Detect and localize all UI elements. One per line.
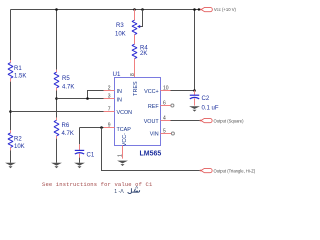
pin 6 REF stub <box>161 100 174 107</box>
svg-text:VCC+: VCC+ <box>144 89 159 95</box>
wire to ground left <box>10 150 12 162</box>
svg-text:R5: R5 <box>62 76 70 82</box>
svg-text:C2: C2 <box>202 96 210 102</box>
svg-text:1.5K: 1.5K <box>14 74 26 80</box>
ground (under C1) <box>74 163 85 168</box>
svg-text:4.7K: 4.7K <box>62 84 74 90</box>
svg-text:TRES: TRES <box>133 81 139 96</box>
svg-text:VIN: VIN <box>150 131 159 137</box>
svg-text:VCON: VCON <box>117 110 133 116</box>
svg-text:10: 10 <box>163 85 169 91</box>
capacitor C1 <box>75 128 95 163</box>
node top rail / R5 branch <box>55 8 58 11</box>
svg-text:2: 2 <box>108 85 111 91</box>
pin 9 wire TCAP <box>80 122 115 129</box>
svg-text:3: 3 <box>108 93 111 99</box>
resistor R5 <box>54 70 74 91</box>
svg-text:0.1 uF: 0.1 uF <box>202 105 219 111</box>
wire left vertical <box>10 10 12 61</box>
ground (left, under R2) <box>5 163 16 168</box>
svg-text:10K: 10K <box>14 144 25 150</box>
resistor R4 <box>132 44 148 58</box>
wire top rail <box>11 9 200 11</box>
pin 7 wire VCON <box>11 106 115 112</box>
svg-text:9: 9 <box>108 122 111 128</box>
svg-text:Output (Square): Output (Square) <box>214 119 245 124</box>
svg-text:2K: 2K <box>140 51 147 57</box>
svg-text:R1: R1 <box>14 66 22 72</box>
svg-text:8: 8 <box>130 73 136 76</box>
wire R5 to R6 <box>56 91 58 118</box>
svg-text:1: 1 <box>117 154 123 157</box>
wire R3 to R4 <box>134 35 136 45</box>
node Output (Triangle, Hi-Z) connector <box>200 168 256 173</box>
svg-text:VCC-: VCC- <box>122 133 128 146</box>
svg-text:4.7K: 4.7K <box>62 131 74 137</box>
resistor R6 <box>54 118 74 139</box>
ground (under C2) <box>189 106 200 111</box>
svg-text:4: 4 <box>163 115 166 121</box>
ground (pin 1) <box>117 161 128 166</box>
svg-text:R3: R3 <box>116 23 124 29</box>
svg-text:5: 5 <box>163 128 166 134</box>
svg-text:IN: IN <box>117 89 122 95</box>
svg-text:R6: R6 <box>62 123 70 129</box>
wire second vertical (R5/R6 branch) <box>56 10 58 70</box>
svg-text:IN: IN <box>117 97 122 103</box>
svg-text:1 -Λ: 1 -Λ <box>114 189 124 195</box>
resistor R3 (potentiometer) <box>115 8 137 37</box>
svg-text:7: 7 <box>108 106 111 112</box>
pin 1 VCC- stub <box>117 146 123 159</box>
svg-text:R2: R2 <box>14 136 22 142</box>
wire to triangle output <box>102 128 200 171</box>
svg-text:VOUT: VOUT <box>144 119 160 125</box>
svg-text:Output (Triangle, Hi-Z): Output (Triangle, Hi-Z) <box>214 169 256 174</box>
resistor R1 <box>8 60 26 82</box>
wire left vertical middle <box>10 82 12 131</box>
svg-text:C1: C1 <box>87 152 95 158</box>
capacitor C2 <box>190 91 219 112</box>
svg-text:U1: U1 <box>113 71 121 78</box>
ground (under R6) <box>51 163 62 168</box>
wire Vcc vertical <box>194 10 196 91</box>
figure caption (Arabic) <box>114 187 139 195</box>
pin 4 VOUT wire <box>161 115 200 121</box>
svg-text:LM565: LM565 <box>140 151 162 158</box>
svg-text:Vcc (+10 V): Vcc (+10 V) <box>214 7 237 12</box>
node Output (Square) connector <box>200 118 244 123</box>
svg-text:REF: REF <box>148 104 159 110</box>
node Vcc connector <box>198 7 237 12</box>
pin 2 wire <box>88 85 115 98</box>
wire R3 wiper from top rail <box>141 8 144 11</box>
svg-text:6: 6 <box>163 100 166 106</box>
op-amp U1 LM565 box <box>115 78 161 146</box>
node R1-R2 junction <box>9 110 12 113</box>
wire to ground under R6 <box>56 139 58 163</box>
node pins 2,3 tap <box>55 97 58 100</box>
pin 5 VIN stub <box>161 128 175 135</box>
resistor R2 <box>8 130 25 150</box>
svg-text:See instructions for value of: See instructions for value of C1 <box>42 181 153 188</box>
pin 3 wire <box>57 93 115 99</box>
pin 10 wire VCC+ <box>161 85 195 91</box>
svg-text:10K: 10K <box>115 32 126 38</box>
wire R4 to pin 8 <box>134 59 136 78</box>
svg-text:TCAP: TCAP <box>117 127 132 133</box>
